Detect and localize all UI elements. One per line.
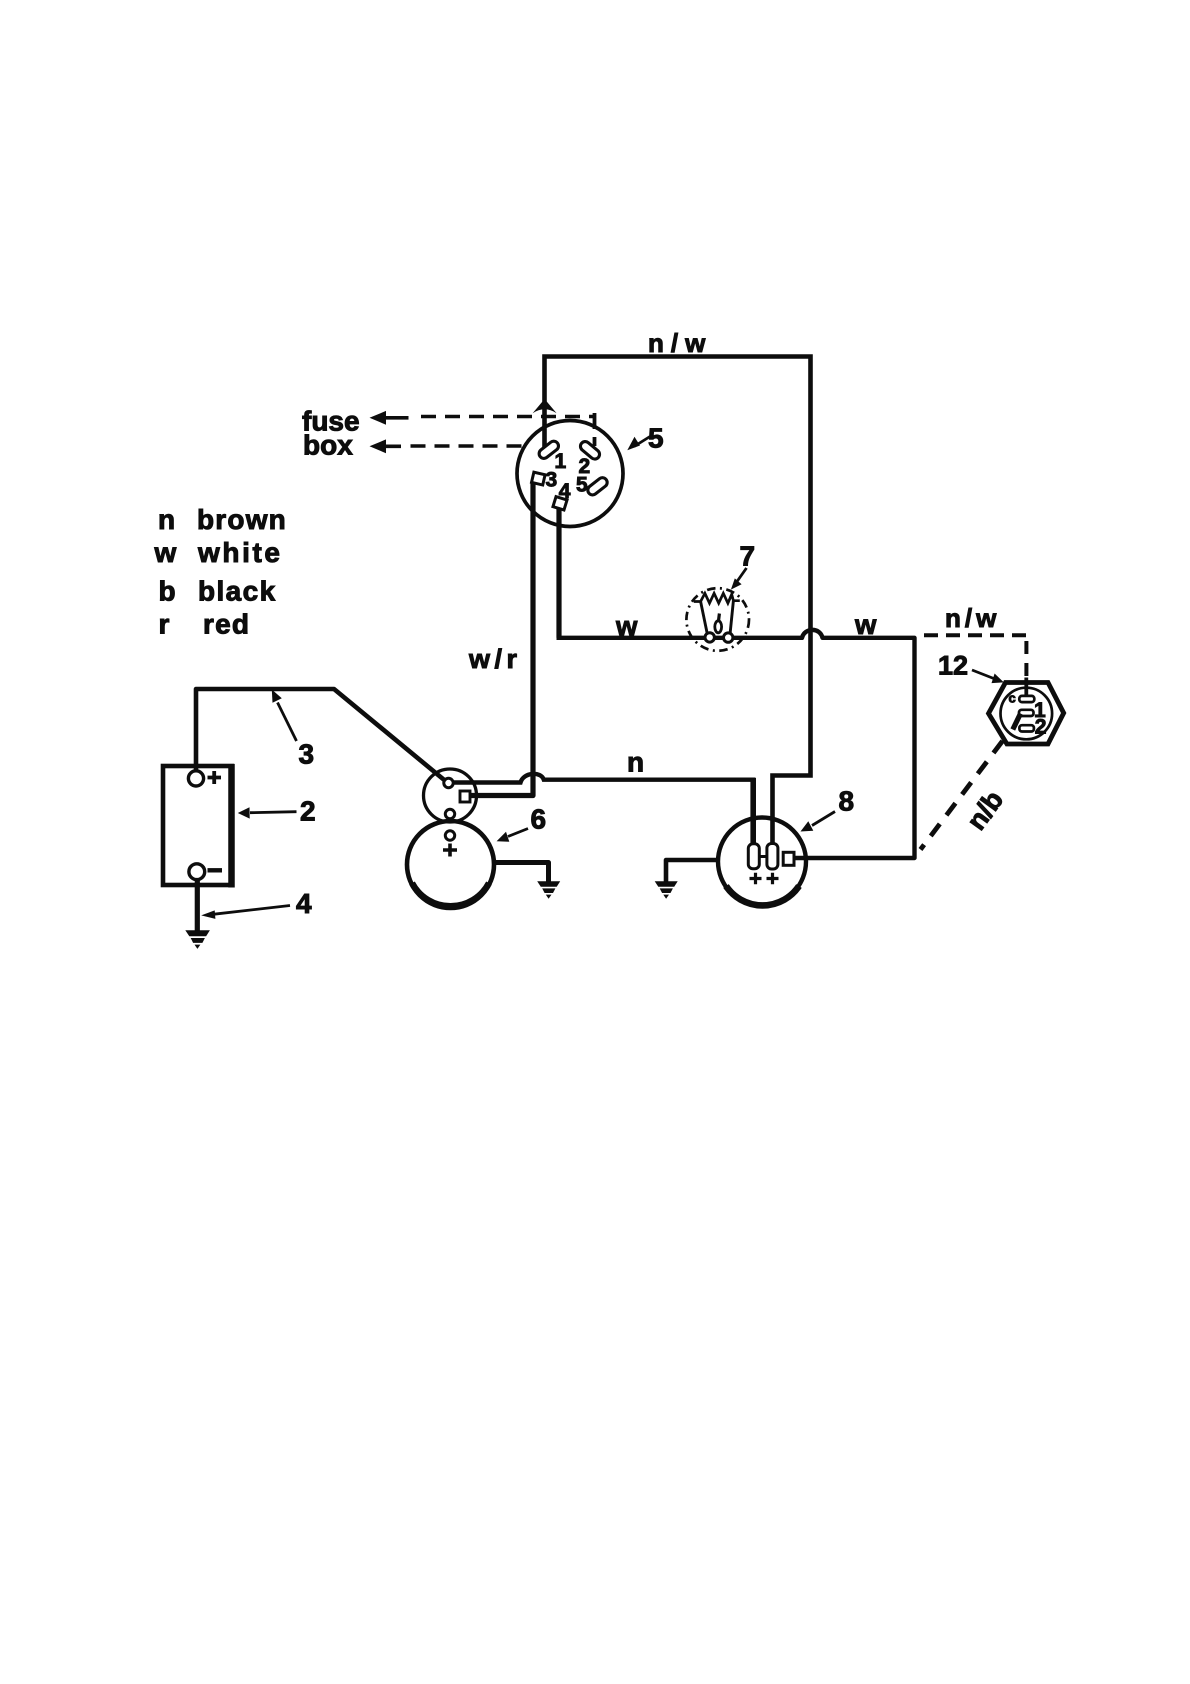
dynamo inner bead [445,831,454,840]
lamp 7 bulb envelope with filament zigzag [694,593,740,603]
warning lamp 7 dash-dot circle [686,588,749,651]
ground (horn) [655,881,678,899]
svg-text:4: 4 [559,480,571,503]
fuse arrow 2 (to box) [370,439,402,453]
fuse dashed line 2 [411,444,529,447]
svg-text:b: b [159,576,176,607]
ignition switch 5 circle [517,421,623,527]
ground (battery) [185,930,210,949]
svg-text:n: n [627,747,644,778]
svg-text:7: 7 [740,541,756,572]
svg-text:4: 4 [296,888,312,919]
svg-text:w: w [854,609,877,640]
horn terminal link [759,855,767,858]
svg-text:12: 12 [938,651,968,681]
svg-text:red: red [203,609,250,640]
ground (dynamo) [537,881,560,899]
battery - terminal [189,864,205,880]
svg-text:3: 3 [299,739,315,770]
terminal 2 of switch 5 [579,440,602,461]
dynamo field square terminal [460,791,470,802]
dashed wire n/b from switch 12 to horn feed corner [921,741,1003,850]
horn terminal A [748,844,759,869]
switch 12 lever [1013,714,1021,730]
wire w from terminal 4 down then right to warning lamp and horn branch [556,508,561,638]
dynamo 6 control box circle [424,769,477,822]
svg-text:n/w: n/w [945,603,1000,633]
arrow to switch 12 [972,670,995,679]
svg-text:w/r: w/r [468,644,522,674]
svg-text:w: w [615,611,638,642]
battery + terminal [188,771,203,786]
wire 3 battery positive to dynamo [196,689,449,784]
svg-text:n/w: n/w [648,328,712,358]
dynamo earth wire [494,863,549,883]
svg-text:2: 2 [1035,716,1047,739]
terminal 4 of switch 5 [553,497,567,510]
svg-text:8: 8 [839,786,855,817]
terminal 3 of switch 5 [532,472,546,485]
dynamo small lower bead [445,809,454,818]
horn earth wire [666,860,718,882]
arrow up on wire into n/w line [533,399,557,413]
svg-text:5: 5 [648,423,664,454]
svg-text:6: 6 [531,804,547,835]
switch 12 feed stub [1024,678,1028,698]
wire n dynamo to horn with hop over w/r [451,774,756,783]
arrow to switch 5 [634,437,650,447]
terminal 5 of switch 5 [586,476,609,497]
svg-text:w: w [154,537,177,568]
fuse dashed line 1 [421,415,595,418]
svg-text:brown: brown [197,504,287,535]
horn side square terminal [783,852,794,865]
battery negative wire to ground [195,879,200,931]
switch 12 terminal c [1019,696,1034,702]
svg-text:2: 2 [300,796,316,827]
lamp 7 terminal beads [705,633,714,642]
lighting switch 12 hexagon [989,683,1064,745]
wire w/r from terminal 3 down to dynamo field terminal [470,482,533,796]
switch 12 inner circle [1001,688,1053,740]
switch 12 terminal 2 [1019,725,1034,731]
dashed wire n/w to switch 12 [924,633,1026,637]
svg-text:box: box [303,430,353,461]
arrow to lamp 7 [737,568,747,582]
svg-text:n/b: n/b [961,785,1009,835]
svg-text:c: c [1009,691,1016,706]
lamp 7 filament support loop [715,621,722,633]
battery 2 [163,766,232,885]
svg-text:3: 3 [546,469,558,492]
svg-text:n: n [158,504,175,535]
wire n drop into horn terminal [750,778,756,846]
horn terminal B [767,844,778,870]
svg-text:5: 5 [576,474,588,497]
fuse arrow 1 (to fuse) [370,411,409,425]
switch 12 terminal 1 [1019,710,1034,716]
terminal 1 of switch 5 [537,439,560,460]
svg-text:black: black [198,576,277,607]
svg-text:r: r [159,609,170,640]
wire n/w top loop from switch 5 to horn branch [545,357,811,847]
fuse dashed bracket corner down to terminal 2 [593,413,597,446]
dynamo + mark [443,844,457,857]
horn + + marks [750,873,779,885]
svg-text:white: white [197,537,283,568]
dynamo 6 body circle [407,821,494,908]
horn 8 circle [718,818,806,906]
dynamo output terminal bead [444,778,453,787]
